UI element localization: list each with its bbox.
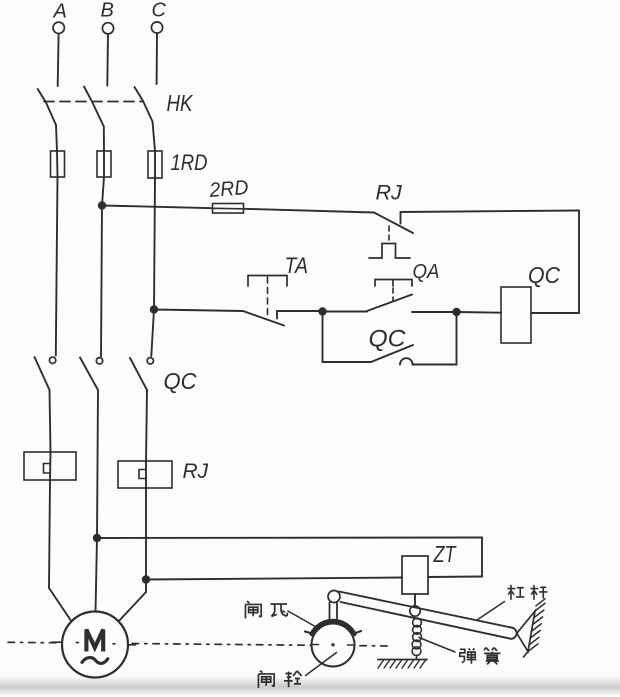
svg-text:QA: QA: [413, 260, 440, 283]
RJ thermal actuator hat symbol: [369, 244, 410, 259]
wire B blade to fuse: [103, 127, 105, 152]
svg-text:A: A: [53, 1, 67, 23]
wire control top rail left: [102, 206, 374, 213]
junction dot node 2: [452, 308, 460, 316]
wire B junction to motor: [96, 538, 98, 612]
terminal C: [151, 22, 162, 33]
contactor QC main pole A blade: [35, 357, 50, 390]
spring lower stem: [416, 655, 418, 660]
thermal relay RJ heater element pole A: [24, 452, 76, 480]
wire RJ to right edge: [401, 211, 580, 213]
motor M circle: [62, 612, 128, 678]
start button QA blade: [367, 295, 412, 312]
fulcrum hatching: [528, 599, 545, 652]
junction dot on C (ZT tap): [142, 575, 150, 583]
RJ heater A notch: [44, 464, 51, 474]
wire A blade to fuse: [56, 125, 57, 151]
brake shoe link: [330, 603, 338, 619]
terminal B: [102, 23, 113, 34]
junction dot on B (ZT tap): [93, 534, 101, 542]
junction dot node 1: [318, 307, 326, 315]
lever rounded tip: [511, 628, 517, 639]
wire C diagonal into motor: [118, 592, 147, 623]
QA actuator dashed link: [392, 288, 394, 301]
contactor coil QC: [501, 287, 531, 343]
switch HK pole A blade: [38, 89, 56, 125]
wire phase B drop: [106, 34, 109, 86]
wire phase A drop: [57, 34, 60, 87]
wire ZT loop bottom left (from C): [146, 578, 402, 580]
wire ZT loop bottom right: [428, 576, 482, 579]
wire A below QC through RJ heater: [49, 390, 51, 588]
lever (bottom edge): [341, 602, 512, 639]
wire C through fuse down to QC contact: [151, 151, 155, 356]
motor letter M (drawn): [86, 630, 103, 652]
brake wheel circle: [312, 624, 355, 667]
label 闸 (of 闸轮 brake wheel): [258, 671, 274, 688]
wire B below QC to junction: [97, 390, 98, 538]
label 杠 (of 杠杆 lever): [507, 585, 524, 600]
wire control bottom rail: C tap to TA: [154, 310, 243, 312]
label 闸 (of 闸瓦 brake shoe): [245, 601, 261, 618]
auxiliary contact QC blade: [371, 345, 413, 362]
contactor QC main pole C blade: [130, 358, 147, 390]
fuse 2RD through-wire: [213, 207, 244, 210]
brake shoe arc: [312, 621, 355, 634]
label 弹 (of 弹簧 spring): [460, 648, 477, 663]
wire QA to node 2: [412, 311, 457, 313]
svg-text:C: C: [152, 0, 167, 22]
svg-text:B: B: [101, 0, 114, 22]
wire right edge to coil: [531, 312, 579, 314]
lever (top edge): [339, 592, 513, 628]
contactor QC main pole C fixed hook: [147, 358, 153, 364]
ZT plunger rod: [414, 594, 416, 606]
centerline ticks at motor: [52, 642, 136, 645]
switch HK pole C blade: [135, 87, 153, 122]
pointer line to lever (label 杠杆): [477, 602, 505, 621]
label 簧 (of 弹簧 spring): [484, 648, 501, 665]
wire coil to node: [457, 311, 502, 314]
svg-text:QC: QC: [164, 368, 198, 394]
wire right edge down: [578, 211, 580, 314]
plunger pin joint: [410, 606, 420, 616]
switch HK linkage (dashed): [44, 101, 142, 103]
thermal relay RJ heater element pole C: [118, 461, 172, 488]
stop button TA blade: [243, 311, 284, 326]
shaft centerline (dash-dot): [8, 642, 390, 646]
wire node1 to QA: [323, 311, 368, 313]
contactor QC main pole B blade: [80, 358, 98, 391]
brake shoe end feet: [305, 631, 361, 634]
RJ contact stop stub: [400, 213, 402, 224]
svg-text:HK: HK: [167, 90, 194, 116]
wire ZT loop top (from B): [97, 537, 482, 540]
wire A through fuse down to QC contact: [56, 151, 58, 356]
thermal relay contact RJ blade: [374, 213, 413, 234]
label 瓦 (of 闸瓦 brake shoe): [271, 604, 288, 617]
contactor QC main pole B fixed hook: [96, 358, 102, 364]
pointer line to brake wheel (label 闸轮): [306, 653, 337, 676]
ground anchor line: [378, 659, 427, 661]
switch HK pole B blade: [84, 87, 104, 127]
wheel centerline ticks and dot: [312, 644, 356, 647]
svg-text:TA: TA: [285, 253, 309, 278]
fulcrum triangle: [517, 611, 535, 657]
label 杆 (of 杠杆 lever): [530, 585, 547, 600]
wire phase C drop: [156, 33, 158, 84]
RJ heater C notch: [139, 470, 146, 479]
fuse 1RD pole B: [97, 151, 111, 177]
svg-text:ZT: ZT: [433, 541, 457, 567]
wire C below QC through RJ heater: [146, 390, 147, 580]
scan shadow band bottom: [0, 676, 620, 695]
brake electromagnet ZT: [402, 556, 428, 594]
wire C blade to fuse: [153, 122, 156, 152]
self-hold branch left drop: [323, 312, 372, 363]
lever left pin joint: [328, 591, 340, 603]
terminal A: [53, 22, 64, 33]
pointer line to spring (label 弹簧): [419, 638, 455, 653]
ground hatching: [378, 660, 426, 669]
wire ZT loop right edge: [481, 538, 483, 577]
wire C junction down: [145, 580, 147, 593]
junction dot on B (control tap): [98, 201, 106, 209]
auxiliary contact QC fixed hook: [400, 358, 413, 364]
motor phase symbol tilde: [82, 658, 108, 664]
wire B through fuse down to QC contact: [101, 151, 104, 357]
TA pushbutton cap: [248, 276, 287, 287]
svg-text:RJ: RJ: [376, 181, 403, 205]
TA contact stop stub: [276, 311, 278, 319]
fuse 2RD: [213, 204, 244, 214]
label 轮 (of 闸轮 brake wheel): [284, 671, 302, 687]
fuse 1RD pole C: [148, 151, 162, 178]
svg-text:QC: QC: [369, 326, 407, 353]
TA actuator dashed link: [267, 277, 269, 317]
self-hold branch right return: [413, 312, 457, 365]
svg-text:RJ: RJ: [183, 460, 209, 483]
wire TA to node: [277, 310, 323, 312]
RJ contact actuator dashed link: [388, 226, 390, 242]
svg-text:QC: QC: [528, 262, 560, 288]
pointer line to brake shoe (label 闸瓦): [288, 611, 320, 629]
junction dot on C (control tap): [150, 305, 158, 313]
svg-text:2RD: 2RD: [208, 176, 250, 202]
QA pushbutton cap: [375, 280, 412, 287]
wire A diagonal into motor: [49, 588, 72, 622]
svg-text:1RD: 1RD: [171, 150, 208, 175]
contactor QC main pole A fixed hook: [49, 357, 55, 363]
spring coil: [413, 618, 422, 627]
fuse 1RD pole A: [51, 151, 65, 177]
